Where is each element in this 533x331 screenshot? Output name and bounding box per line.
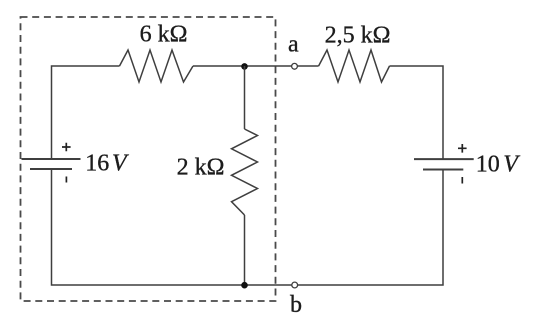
label 10 V	[476, 152, 521, 178]
svg-text:10: 10	[476, 152, 500, 178]
plus sign of V1	[62, 143, 71, 152]
battery V2 10 V	[414, 159, 474, 169]
svg-text:V: V	[112, 150, 129, 176]
junction dot bottom	[241, 282, 248, 289]
terminal a (open circle)	[292, 63, 298, 69]
label 6 kOhm	[140, 22, 188, 48]
junction dot top	[241, 63, 248, 70]
wire terminal a to 2.5k	[297, 65, 318, 67]
minus tick of V1	[65, 177, 67, 183]
svg-text:16: 16	[85, 150, 109, 176]
wire top-left (source to 6k resistor)	[52, 66, 120, 159]
svg-text:2 kΩ: 2 kΩ	[177, 155, 225, 181]
wire from 6k to node a terminal	[193, 65, 292, 67]
wire middle branch upper	[244, 66, 246, 129]
svg-text:2,5 kΩ: 2,5 kΩ	[325, 22, 391, 48]
wire bottom (terminal b to left source)	[52, 169, 292, 285]
wire middle branch lower	[244, 215, 246, 285]
svg-text:6 kΩ: 6 kΩ	[140, 22, 188, 48]
svg-text:b: b	[290, 292, 302, 318]
dashed network boundary box	[21, 17, 276, 301]
wire right battery bottom to terminal b	[298, 170, 444, 286]
battery V1 16 V	[22, 159, 81, 169]
label 2,5 kOhm	[325, 22, 391, 48]
label b	[290, 292, 302, 318]
minus tick of V2	[461, 177, 463, 184]
resistor R3 2,5 kOhm	[319, 50, 390, 82]
plus sign of V2	[458, 144, 467, 153]
svg-text:a: a	[288, 31, 299, 57]
label 16 V	[85, 150, 129, 176]
resistor R1 6 kOhm	[120, 50, 194, 82]
label a	[288, 31, 299, 57]
terminal b (open circle)	[292, 282, 298, 288]
svg-text:V: V	[503, 152, 520, 178]
label 2 kOhm	[177, 155, 225, 181]
resistor R2 2 kOhm (vertical)	[232, 129, 258, 215]
wire 2.5k to right battery top	[390, 66, 444, 159]
